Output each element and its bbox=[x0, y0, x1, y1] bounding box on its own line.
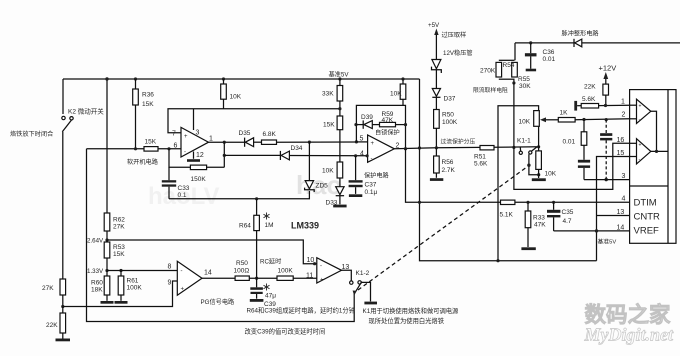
wire drop to sampling resistors bbox=[514, 43, 516, 60]
label delay text 2 bbox=[245, 327, 326, 336]
svg-text:0.01: 0.01 bbox=[543, 56, 556, 63]
label current-limit sampling resistor bbox=[473, 86, 508, 94]
ground under 10K K1-1 bbox=[532, 178, 546, 181]
svg-text:7: 7 bbox=[172, 131, 176, 138]
resistor R33 47K bbox=[525, 202, 546, 247]
svg-text:18K: 18K bbox=[91, 287, 103, 294]
svg-text:11: 11 bbox=[306, 273, 313, 280]
svg-text:脉冲整形电路: 脉冲整形电路 bbox=[562, 30, 600, 38]
svg-text:R60: R60 bbox=[91, 280, 103, 287]
resistor 22K left bbox=[46, 307, 66, 339]
svg-text:1K: 1K bbox=[560, 110, 569, 117]
svg-text:+12V: +12V bbox=[599, 64, 617, 73]
label self-lock protection bbox=[375, 128, 400, 136]
svg-text:6: 6 bbox=[174, 143, 178, 150]
node pin5 entry bbox=[355, 140, 368, 143]
svg-text:100K: 100K bbox=[127, 285, 143, 292]
junction dot rail R62 bbox=[105, 77, 108, 80]
svg-text:13: 13 bbox=[617, 209, 625, 216]
resistor R51 5.6K bbox=[474, 146, 494, 168]
resistor 5.1K DTIM line bbox=[500, 200, 515, 218]
svg-text:K1用于切换使用烙铁和做可调电源: K1用于切换使用烙铁和做可调电源 bbox=[363, 306, 460, 315]
svg-text:4: 4 bbox=[360, 150, 364, 157]
svg-text:1: 1 bbox=[621, 99, 625, 106]
svg-text:14: 14 bbox=[204, 270, 212, 277]
svg-text:R36: R36 bbox=[142, 92, 154, 99]
svg-text:R62: R62 bbox=[113, 217, 125, 224]
svg-text:MyDigit.net: MyDigit.net bbox=[584, 325, 674, 345]
node junction left divider bbox=[61, 305, 64, 308]
label +5V bbox=[428, 22, 440, 29]
svg-text:3: 3 bbox=[196, 130, 200, 137]
node R50 R56 junction bbox=[435, 146, 438, 149]
resistor 10K chain bbox=[322, 162, 343, 187]
diode D33 bbox=[326, 187, 345, 207]
svg-text:-: - bbox=[181, 269, 183, 275]
svg-text:+: + bbox=[639, 143, 642, 149]
wire C33 bottom to ZD5 bbox=[169, 191, 309, 199]
ground pin12 U1a bbox=[187, 152, 200, 162]
wire U1a output bbox=[209, 141, 245, 144]
resistor 33K chain bbox=[322, 77, 343, 116]
resistor R50 100K bbox=[434, 110, 458, 148]
svg-text:2.64V: 2.64V bbox=[87, 238, 104, 245]
svg-text:过压取样: 过压取样 bbox=[442, 31, 467, 39]
svg-text:2.7K: 2.7K bbox=[442, 167, 456, 174]
wire pin13 stub bbox=[597, 215, 630, 217]
resistor-cap snubber 0.01 bbox=[563, 120, 591, 180]
svg-text:150K: 150K bbox=[191, 176, 207, 183]
resistor R53 15K bbox=[104, 240, 125, 271]
svg-text:22K: 22K bbox=[584, 84, 596, 91]
junction 33K-15K bbox=[338, 107, 341, 110]
resistor R59 47K bbox=[380, 111, 408, 127]
watermark digit home bbox=[584, 302, 674, 345]
node RC delay bbox=[255, 277, 258, 280]
node ZD5 top bbox=[308, 141, 311, 144]
svg-text:15K: 15K bbox=[142, 101, 154, 108]
wire K2 lower terminal down bbox=[62, 132, 64, 279]
svg-text:ZD5: ZD5 bbox=[316, 183, 329, 190]
svg-text:14: 14 bbox=[617, 225, 625, 232]
svg-text:K1-2: K1-2 bbox=[356, 270, 370, 277]
svg-text:现所处位置为使用白光烙铁: 现所处位置为使用白光烙铁 bbox=[369, 316, 445, 325]
resistor 27K left bbox=[42, 279, 66, 307]
wire D34 line bbox=[224, 154, 280, 156]
switch K1-1 bbox=[517, 138, 537, 155]
svg-text:D34: D34 bbox=[291, 145, 303, 152]
svg-text:K1-1: K1-1 bbox=[517, 138, 531, 145]
svg-text:1: 1 bbox=[209, 136, 213, 143]
switch K1-2 bbox=[350, 270, 370, 296]
switch K2 bbox=[62, 116, 73, 132]
resistor 6.8K bbox=[262, 131, 357, 144]
resistor R60 18K bbox=[91, 271, 110, 301]
zener 12V bbox=[432, 49, 473, 89]
resistor 10K under K1-1 bbox=[536, 145, 557, 178]
wire 1.33V to pin8 bbox=[107, 270, 177, 272]
svg-text:D37: D37 bbox=[444, 96, 456, 103]
svg-text:K2 微动开关: K2 微动开关 bbox=[68, 107, 104, 116]
label soft-start circuit bbox=[127, 158, 159, 166]
wire 15K to pin6 bbox=[158, 148, 181, 150]
label LM339 bbox=[291, 221, 319, 231]
node divider to K1-1 bbox=[512, 146, 515, 149]
svg-text:16: 16 bbox=[617, 137, 625, 144]
wire K1-2 right contact to ground bbox=[361, 282, 377, 304]
label RC delay bbox=[260, 258, 281, 266]
svg-text:+5V: +5V bbox=[428, 22, 440, 29]
svg-text:+: + bbox=[320, 278, 324, 284]
label +12V bbox=[599, 64, 617, 73]
capacitor C36 0.01 bbox=[525, 41, 556, 71]
label overcurrent protect divider bbox=[441, 138, 476, 146]
resistor 10K pullup U1a bbox=[221, 77, 242, 108]
svg-text:9: 9 bbox=[168, 280, 172, 287]
resistor R56 2.7K bbox=[434, 148, 456, 178]
node pin10 entry bbox=[313, 262, 316, 265]
label reference 5V top bbox=[329, 71, 350, 79]
ground under R33 bbox=[521, 247, 535, 250]
wire soft-start horizontal bbox=[87, 148, 145, 150]
svg-text:RC延时: RC延时 bbox=[260, 258, 281, 266]
wire K1-1 moving contact down bbox=[527, 154, 540, 176]
svg-text:10K: 10K bbox=[322, 168, 334, 175]
svg-text:CNTR: CNTR bbox=[634, 212, 661, 223]
svg-text:烙铁放下时闭合: 烙铁放下时闭合 bbox=[10, 130, 53, 138]
svg-text:软开机电路: 软开机电路 bbox=[127, 158, 159, 166]
svg-text:8: 8 bbox=[168, 264, 172, 271]
svg-text:-: - bbox=[320, 264, 322, 270]
node 2.64V bbox=[87, 238, 109, 245]
resistor 10K to rail U1b bbox=[390, 77, 406, 105]
capacitor on dashed link bbox=[600, 120, 612, 182]
label K1 text 1 bbox=[363, 306, 460, 315]
svg-text:C35: C35 bbox=[562, 209, 574, 216]
svg-text:D39: D39 bbox=[361, 114, 373, 121]
wire self-lock loop left bbox=[356, 105, 405, 148]
label delay text 1 bbox=[247, 306, 355, 315]
wire junction to pin9 riser bbox=[63, 281, 178, 307]
svg-text:限流取样电阻: 限流取样电阻 bbox=[473, 86, 508, 94]
wire 5V reference drop right bbox=[418, 79, 597, 261]
svg-text:R50: R50 bbox=[236, 260, 248, 267]
capacitor C37 0.1u bbox=[349, 154, 378, 197]
svg-text:+: + bbox=[181, 287, 185, 293]
resistor R62 27K bbox=[104, 213, 125, 240]
svg-text:C36: C36 bbox=[543, 49, 555, 56]
svg-text:3: 3 bbox=[622, 173, 626, 180]
label reference 5V right bbox=[598, 237, 617, 245]
resistor R64 1M bbox=[239, 197, 274, 278]
resistor pair 270K R54 sampling bbox=[480, 60, 531, 90]
wire output down to pin4 DTIM line bbox=[406, 149, 630, 203]
svg-text:LM339: LM339 bbox=[291, 221, 319, 231]
svg-text:+: + bbox=[184, 134, 188, 140]
svg-text:R56: R56 bbox=[442, 159, 454, 166]
wire pin3 V+ riser bbox=[193, 109, 195, 130]
svg-text:30K: 30K bbox=[519, 83, 531, 90]
capacitor bar 5.6K input bbox=[574, 101, 581, 111]
resistor R50 100ohm bbox=[234, 260, 278, 280]
wire R62 chain drop bbox=[106, 79, 108, 213]
svg-text:100K: 100K bbox=[278, 268, 294, 275]
arrow +12V bbox=[603, 72, 608, 84]
capacitor C39 47u bbox=[250, 278, 277, 308]
svg-text:R54: R54 bbox=[503, 62, 515, 69]
svg-text:4.7: 4.7 bbox=[563, 218, 572, 225]
wire sampling node down to pin16 route bbox=[512, 81, 629, 189]
arrow +5V bbox=[434, 29, 438, 60]
svg-text:R53: R53 bbox=[113, 244, 125, 251]
svg-text:6.8K: 6.8K bbox=[263, 131, 277, 138]
junction R36 bottom bbox=[134, 147, 137, 150]
wire U1b output to current-protect divider bbox=[394, 147, 538, 150]
svg-text:33K: 33K bbox=[322, 91, 334, 98]
node R33 top bbox=[526, 201, 529, 204]
svg-text:100K: 100K bbox=[442, 119, 458, 126]
svg-text:R61: R61 bbox=[127, 278, 139, 285]
svg-text:-: - bbox=[184, 150, 186, 156]
label DTIM CNTR VREF bbox=[634, 198, 661, 237]
svg-text:改变C39的值可改变延时时间: 改变C39的值可改变延时时间 bbox=[245, 327, 326, 336]
resistor 5.6K pin1 bbox=[581, 96, 629, 108]
label protection circuit bbox=[364, 172, 390, 180]
wire top pulse line bbox=[515, 42, 680, 44]
svg-text:4: 4 bbox=[622, 196, 626, 203]
node C35 top bbox=[552, 201, 555, 204]
node snubber top bbox=[582, 118, 585, 121]
capacitor C35 4.7 bbox=[547, 202, 574, 231]
svg-text:5.1K: 5.1K bbox=[500, 212, 514, 219]
op-amp U1a bbox=[172, 127, 213, 159]
svg-text:15K: 15K bbox=[113, 251, 125, 258]
svg-text:R64: R64 bbox=[239, 223, 251, 230]
svg-text:R64和C39组成延时电路，延时约1分钟: R64和C39组成延时电路，延时约1分钟 bbox=[247, 306, 355, 315]
svg-text:15K: 15K bbox=[145, 139, 157, 146]
op-amp IC-A bbox=[630, 99, 657, 151]
node dashed top bbox=[605, 118, 608, 121]
svg-text:R51: R51 bbox=[474, 154, 486, 161]
ground under R56 bbox=[430, 178, 443, 181]
svg-text:1.33V: 1.33V bbox=[87, 268, 104, 275]
wire pin14 C35 line bbox=[554, 229, 630, 232]
wire pin7 feedback line bbox=[168, 109, 340, 133]
svg-text:C37: C37 bbox=[365, 182, 377, 189]
diode D39 bbox=[354, 114, 379, 129]
label K1 text 2 bbox=[369, 316, 445, 325]
svg-text:PG信号电路: PG信号电路 bbox=[201, 298, 236, 306]
svg-text:过流保护分压: 过流保护分压 bbox=[441, 138, 476, 146]
ground under 22K bbox=[56, 339, 71, 342]
svg-text:+: + bbox=[639, 104, 642, 110]
resistor 100K to pin11 bbox=[277, 268, 317, 281]
svg-text:5.6K: 5.6K bbox=[582, 96, 596, 103]
svg-text:2: 2 bbox=[622, 112, 626, 119]
op-amp U1c delay bbox=[306, 257, 349, 284]
label closes when iron put down bbox=[10, 130, 53, 138]
svg-text:R33: R33 bbox=[533, 215, 545, 222]
svg-text:C33: C33 bbox=[178, 185, 190, 192]
label pin numbers IC bbox=[617, 99, 626, 232]
svg-text:10K: 10K bbox=[390, 91, 402, 98]
svg-text:47μ: 47μ bbox=[265, 293, 276, 300]
resistor R61 100K bbox=[118, 269, 142, 301]
wire pin15 route bbox=[597, 157, 630, 261]
svg-text:15: 15 bbox=[617, 150, 625, 157]
diode pulse shaping bbox=[562, 30, 600, 48]
svg-text:+: + bbox=[371, 141, 375, 147]
svg-text:R50: R50 bbox=[442, 112, 454, 119]
svg-text:22K: 22K bbox=[46, 322, 58, 329]
dashed relay linkage K1 bbox=[358, 167, 528, 291]
wire riser pot top bbox=[496, 106, 538, 263]
svg-text:10K: 10K bbox=[519, 119, 531, 126]
resistor 15K chain bbox=[323, 116, 343, 162]
svg-text:0.1: 0.1 bbox=[178, 192, 187, 199]
wire top 5V reference rail bbox=[63, 78, 420, 80]
svg-text:15K: 15K bbox=[323, 122, 335, 129]
resistor 22K right bbox=[584, 84, 609, 106]
zener ZD5 bbox=[305, 142, 329, 192]
svg-text:5.6K: 5.6K bbox=[474, 161, 488, 168]
svg-text:27K: 27K bbox=[113, 224, 125, 231]
svg-text:100Ω: 100Ω bbox=[234, 268, 250, 275]
resistor 150K feedback bbox=[169, 149, 224, 183]
diode D35 bbox=[239, 130, 262, 147]
op-amp IC-B bbox=[630, 139, 668, 164]
svg-text:VREF: VREF bbox=[634, 226, 660, 237]
svg-text:1M: 1M bbox=[265, 222, 274, 229]
potentiometer 10K bbox=[519, 111, 540, 147]
svg-text:47K: 47K bbox=[382, 117, 394, 124]
wiper arrow pot bbox=[540, 117, 558, 122]
svg-text:0.01: 0.01 bbox=[563, 139, 576, 146]
svg-text:10K: 10K bbox=[230, 94, 242, 101]
svg-text:-: - bbox=[371, 156, 373, 162]
wire soft-start to K1-2 lever bbox=[87, 149, 355, 322]
node 1.33V bbox=[87, 268, 109, 275]
wire 2.64V to pin10 bbox=[107, 240, 317, 264]
svg-text:270K: 270K bbox=[480, 68, 496, 75]
resistor 1K wiper bbox=[558, 110, 629, 123]
svg-text:基准5V: 基准5V bbox=[329, 71, 350, 79]
label overvoltage sampling bbox=[442, 31, 467, 39]
ground under R60 bbox=[101, 301, 114, 304]
svg-text:0.1μ: 0.1μ bbox=[365, 189, 378, 196]
op-amp U1d PG bbox=[168, 261, 212, 295]
resistor R36 15K bbox=[133, 77, 155, 148]
svg-text:D35: D35 bbox=[239, 130, 251, 137]
svg-text:47K: 47K bbox=[534, 222, 546, 229]
resistor 15K soft-start bbox=[144, 139, 158, 152]
svg-text:基准5V: 基准5V bbox=[598, 237, 617, 245]
label PG signal circuit bbox=[201, 298, 236, 306]
svg-text:10K: 10K bbox=[545, 171, 557, 178]
op-amp U1b self-lock bbox=[360, 135, 400, 162]
svg-text:R55: R55 bbox=[518, 76, 530, 83]
diode D34 bbox=[280, 145, 367, 160]
svg-text:12V稳压管: 12V稳压管 bbox=[443, 49, 473, 57]
capacitor C33 0.1 bbox=[162, 167, 190, 199]
label K2 bbox=[68, 107, 104, 116]
wire left drop to K2 bbox=[62, 79, 64, 114]
svg-text:12: 12 bbox=[196, 152, 204, 159]
svg-text:27K: 27K bbox=[42, 285, 54, 292]
svg-text:保护电路: 保护电路 bbox=[364, 172, 390, 180]
wire U1d output bbox=[202, 277, 235, 279]
diode D37 bbox=[432, 89, 456, 110]
node pin4 entry bbox=[366, 154, 369, 157]
svg-text:自锁保护: 自锁保护 bbox=[375, 128, 400, 136]
ghost watermark haoLV bbox=[148, 170, 342, 210]
wire pin3 line bbox=[584, 179, 630, 181]
node 22K bottom bbox=[604, 104, 607, 107]
ground under D33 bbox=[333, 205, 346, 208]
IC box bbox=[630, 90, 676, 244]
wire U1c output to K1-2 bbox=[342, 270, 352, 281]
svg-text:DTIM: DTIM bbox=[634, 198, 657, 209]
ground under R61 bbox=[115, 301, 128, 304]
wire feedback drop at output node bbox=[223, 142, 226, 167]
svg-text:数码之家: 数码之家 bbox=[585, 302, 672, 327]
node junction pin6 bbox=[167, 147, 170, 150]
